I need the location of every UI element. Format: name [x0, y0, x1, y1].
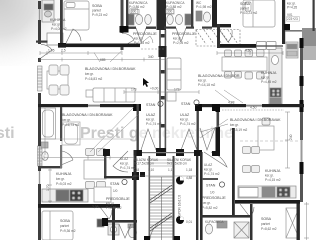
svg-text:BLAGOVAONA I DN.BORAVAK: BLAGOVAONA I DN.BORAVAK: [62, 113, 113, 117]
svg-text:4,60: 4,60: [245, 49, 252, 53]
svg-text:ker.gr.: ker.gr.: [120, 162, 129, 166]
svg-text:PREDSOBLJE: PREDSOBLJE: [133, 32, 157, 36]
svg-text:1,95: 1,95: [48, 49, 55, 53]
svg-text:1,18: 1,18: [186, 168, 192, 172]
svg-text:KUPAONICA: KUPAONICA: [205, 220, 224, 224]
svg-text:P=3,86 m2: P=3,86 m2: [129, 5, 145, 9]
svg-text:P=1,98 m2: P=1,98 m2: [196, 5, 212, 9]
svg-text:parket: parket: [92, 9, 101, 13]
svg-text:P=4,35: P=4,35: [287, 6, 297, 10]
svg-text:PREDSOBLJE: PREDSOBLJE: [106, 197, 130, 201]
svg-text:ker.gr.: ker.gr.: [56, 177, 65, 181]
svg-text:4,98: 4,98: [228, 101, 235, 105]
svg-text:P=3,88 m2: P=3,88 m2: [106, 206, 122, 210]
svg-text:300: 300: [167, 10, 173, 14]
svg-text:ker.gr.: ker.gr.: [62, 118, 71, 122]
svg-text:1,10: 1,10: [148, 168, 154, 172]
svg-text:1/0: 1/0: [210, 191, 215, 195]
svg-text:Presti ge nekretnine: Presti ge nekretnine: [80, 125, 233, 142]
svg-text:ker.gr.: ker.gr.: [265, 174, 274, 178]
svg-text:ULAZ: ULAZ: [204, 163, 212, 167]
svg-text:ker.gr.: ker.gr.: [230, 123, 239, 127]
svg-text:ker.gr.: ker.gr.: [261, 76, 270, 80]
svg-text:PREDSOBLJE: PREDSOBLJE: [202, 196, 226, 200]
svg-text:ker.gr.: ker.gr.: [198, 79, 207, 83]
svg-text:+0,00: +0,00: [150, 87, 159, 91]
svg-text:2,5: 2,5: [61, 49, 66, 53]
svg-text:SOBA: SOBA: [92, 4, 103, 8]
svg-text:340: 340: [148, 55, 154, 59]
svg-text:KUHINJA: KUHINJA: [50, 18, 66, 22]
svg-text:PREDSOBLJE: PREDSOBLJE: [172, 32, 196, 36]
svg-text:ker.gr.: ker.gr.: [106, 202, 115, 206]
svg-text:9x17,5x28 cm: 9x17,5x28 cm: [167, 162, 187, 166]
svg-text:parket: parket: [261, 222, 270, 226]
svg-text:P=4,45 m2: P=4,45 m2: [261, 80, 277, 84]
svg-text:685: 685: [100, 58, 106, 62]
svg-text:9x17,5x28 cm: 9x17,5x28 cm: [134, 162, 154, 166]
svg-text:P=1,74 m2: P=1,74 m2: [146, 122, 162, 126]
svg-text:BLAGOVAONA I DN.BORAVAK: BLAGOVAONA I DN.BORAVAK: [85, 67, 136, 71]
svg-text:ULAZ: ULAZ: [146, 113, 156, 117]
svg-text:STAN: STAN: [181, 102, 191, 106]
svg-text:BLAGOVAONA I DN.BORAVAK: BLAGOVAONA I DN.BORAVAK: [230, 118, 281, 122]
svg-text:P=16,73 m2: P=16,73 m2: [62, 123, 80, 127]
svg-text:1,70: 1,70: [46, 184, 50, 191]
svg-text:ULAZ: ULAZ: [180, 113, 190, 117]
svg-text:2,05: 2,05: [92, 205, 99, 209]
svg-text:4,88: 4,88: [186, 176, 192, 180]
svg-text:P=1,74 m2: P=1,74 m2: [180, 122, 196, 126]
svg-text:KUHINJA: KUHINJA: [261, 71, 277, 75]
svg-text:ker.gr.: ker.gr.: [85, 72, 94, 76]
svg-text:P=15,19 m2: P=15,19 m2: [230, 128, 248, 132]
svg-text:parket: parket: [60, 224, 69, 228]
svg-text:173: 173: [131, 88, 137, 92]
svg-text:P=3,88 m2: P=3,88 m2: [166, 5, 182, 9]
svg-text:STAN: STAN: [146, 103, 156, 107]
svg-text:ker.gr.: ker.gr.: [204, 168, 213, 172]
svg-text:KUHINJA: KUHINJA: [265, 169, 281, 173]
svg-text:300: 300: [131, 10, 137, 14]
svg-text:SOBA: SOBA: [240, 2, 251, 6]
svg-text:ker.gr.: ker.gr.: [134, 37, 143, 41]
svg-text:ker.gr.: ker.gr.: [52, 23, 61, 27]
svg-text:1,18: 1,18: [133, 168, 139, 172]
svg-text:ker.gr.: ker.gr.: [146, 118, 155, 122]
svg-text:ker.gr.: ker.gr.: [173, 37, 182, 41]
svg-text:P=2,04 m2: P=2,04 m2: [173, 41, 189, 45]
svg-text:1/0: 1/0: [113, 189, 118, 193]
svg-text:4,50: 4,50: [250, 106, 257, 110]
svg-text:P=1,74 m2: P=1,74 m2: [204, 172, 220, 176]
svg-text:STAN: STAN: [206, 184, 216, 188]
svg-text:P=5,82 m2: P=5,82 m2: [202, 206, 218, 210]
svg-text:USPON 16x17,8: USPON 16x17,8: [178, 195, 182, 219]
svg-text:P=9,23 m2: P=9,23 m2: [92, 13, 108, 17]
svg-text:P=1,63 m2: P=1,63 m2: [134, 41, 150, 45]
svg-text:P=4,15 m2: P=4,15 m2: [265, 178, 281, 182]
svg-text:P=16,83 m2: P=16,83 m2: [85, 77, 103, 81]
svg-text:P=8,62 m2: P=8,62 m2: [261, 227, 277, 231]
svg-text:P=14,18 m2: P=14,18 m2: [198, 83, 216, 87]
svg-text:P=10,23 m2: P=10,23 m2: [240, 11, 258, 15]
svg-text:KUHINJA: KUHINJA: [56, 172, 72, 176]
svg-text:ker.gr.: ker.gr.: [180, 118, 189, 122]
svg-text:1,10: 1,10: [168, 168, 174, 172]
svg-text:223+23: 223+23: [287, 17, 298, 21]
svg-text:ULAZ: ULAZ: [120, 157, 128, 161]
svg-text:0,01: 0,01: [186, 220, 192, 224]
svg-text:P=5,03 m2: P=5,03 m2: [56, 182, 72, 186]
svg-text:SOBA: SOBA: [60, 219, 71, 223]
svg-text:ker.gr.: ker.gr.: [202, 201, 211, 205]
svg-text:parket: parket: [240, 7, 249, 11]
svg-text:STAN: STAN: [110, 182, 120, 186]
svg-text:P=4,08 m2: P=4,08 m2: [51, 27, 67, 31]
svg-text:SOBA: SOBA: [261, 217, 272, 221]
svg-text:240: 240: [289, 134, 293, 140]
svg-text:P=9,36 m2: P=9,36 m2: [60, 229, 76, 233]
svg-text:173: 173: [174, 88, 180, 92]
svg-text:esti: esti: [0, 125, 15, 142]
svg-text:BLAGOVAONA I DN.BOR.: BLAGOVAONA I DN.BOR.: [198, 74, 240, 78]
